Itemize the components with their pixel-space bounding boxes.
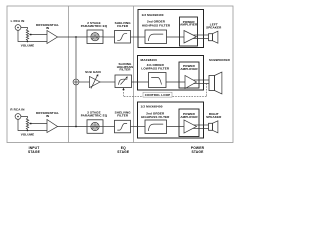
op-amp power amplifier triangle (top) [184, 31, 197, 44]
block shelving filter (bottom) [115, 120, 131, 133]
block shelving filter (top) [115, 31, 131, 44]
svg-text:FILTER: FILTER [120, 68, 132, 72]
wire summer to node R (from bottom) [75, 85, 77, 127]
block 2nd order highpass filter (top) [131, 30, 167, 44]
svg-text:VOLUME: VOLUME [21, 44, 35, 48]
svg-text:IN: IN [46, 114, 49, 118]
svg-text:AMPLIFIER: AMPLIFIER [180, 115, 198, 119]
label 2 STAGE PARAMETRIC EQ (top) [81, 21, 108, 28]
wire EQ to shelving [103, 36, 115, 38]
label RIGHT SPEAKER [206, 112, 222, 119]
svg-text:FILTER: FILTER [117, 24, 129, 28]
label POWER AMPLIFIER (middle) [180, 64, 198, 71]
svg-text:SUBWOOFER: SUBWOOFER [209, 58, 231, 62]
wire wiper to amp U1 [31, 34, 48, 36]
wire U4 to EQ (bottom) [58, 126, 88, 128]
label CONTROL LOOP [143, 92, 172, 97]
svg-text:STAGE: STAGE [117, 150, 130, 154]
wire HPF to power amp (top) [167, 36, 185, 38]
wire shelving to U2 [131, 36, 146, 38]
block sliding highpass filter [115, 75, 132, 88]
svg-text:1/2 MAX98400: 1/2 MAX98400 [141, 105, 163, 109]
junction pot R2 bottom [27, 130, 29, 132]
junction wiper R2 [30, 123, 32, 125]
potentiometer R2 [26, 118, 28, 130]
wire EQ to shelving (bottom) [103, 126, 115, 128]
svg-text:STAGE: STAGE [28, 150, 41, 154]
speaker LS1 left [209, 31, 218, 43]
wire BTL outputs to right speaker [194, 125, 209, 129]
wire shelving to U5 [131, 126, 146, 128]
amplifier sub gain [90, 74, 101, 88]
svg-text:IN: IN [46, 26, 49, 30]
block 4th order lowpass filter [132, 73, 167, 88]
IC U5 1/2 MAX98400 (bottom) [138, 102, 204, 138]
summing node [73, 79, 79, 85]
block power amplifier (bottom) [179, 109, 199, 137]
label DIFFERENTIAL IN (bottom) [36, 111, 59, 118]
label SHELVING FILTER (top) [115, 21, 132, 28]
label INPUT STAGE [28, 146, 41, 154]
op-amp power amplifier triangle (middle) [185, 76, 197, 89]
wire pot R2 bottom to amp U4 [28, 130, 48, 132]
wire BTL outputs to left speaker [194, 35, 209, 39]
connector J1 RCA jack [15, 25, 21, 31]
wire J2 to pot R2 [21, 117, 28, 119]
wire LPF to power amp (middle) [166, 81, 185, 83]
svg-text:CONTROL LOOP: CONTROL LOOP [145, 93, 171, 97]
wire J1 to pot R1 [21, 28, 28, 30]
svg-text:HIGHPASS FILTER: HIGHPASS FILTER [141, 115, 170, 119]
svg-text:R RCA IN: R RCA IN [10, 107, 24, 111]
wire wiper to amp U4 [31, 123, 48, 125]
label 4th ORDER LOWPASS FILTER [141, 63, 169, 70]
outer frame [7, 6, 233, 143]
wire node L down to summer [75, 37, 77, 79]
svg-text:SPEAKER: SPEAKER [206, 115, 222, 119]
op-amp U1 differential input amp [47, 31, 58, 44]
label EQ STAGE [117, 146, 130, 154]
block parametric EQ (top) [87, 30, 103, 44]
label 2nd ORDER HIGHPASS FILTER (top) [142, 19, 171, 27]
svg-text:PARAMETRIC EQ: PARAMETRIC EQ [81, 24, 108, 28]
svg-text:VOLUME: VOLUME [21, 133, 35, 137]
label POWER STAGE [191, 146, 205, 154]
speaker subwoofer [209, 72, 222, 94]
label POWER AMPLIFIER (bottom) [180, 112, 198, 119]
wire sub gain to sliding HPF [100, 81, 115, 83]
label SLIDING HIGHPASS FILTER [117, 62, 133, 72]
junction node L [75, 36, 77, 38]
connector J2 RCA jack [15, 114, 21, 120]
op-amp U4 differential input amp [47, 120, 58, 133]
svg-text:STAGE: STAGE [191, 150, 204, 154]
IC U3 MAX98400 (middle) [138, 56, 204, 91]
wire return loop J1 to pot bottom [18, 30, 28, 41]
junction pot bottom [27, 41, 29, 43]
block power amplifier (top) [180, 17, 198, 46]
label SHELVING FILTER (bottom) [115, 111, 132, 118]
label DIFFERENTIAL IN [36, 23, 59, 30]
speaker LS2 right [209, 121, 218, 133]
wire return loop J2 to pot bottom [18, 119, 28, 130]
wire pot bottom to amp U1 [28, 41, 48, 43]
junction node R [75, 126, 77, 128]
wiper arrow R1 [29, 34, 32, 36]
svg-text:SPEAKER: SPEAKER [206, 25, 222, 29]
wiper arrow R2 [29, 123, 32, 125]
wire U1 to EQ [58, 36, 88, 38]
wire HPF to power amp (bottom) [167, 126, 185, 128]
potentiometer R1 [26, 29, 28, 41]
svg-text:SUB GAIN: SUB GAIN [85, 70, 101, 74]
svg-text:PARAMETRIC EQ: PARAMETRIC EQ [81, 113, 108, 117]
svg-text:LOWPASS FILTER: LOWPASS FILTER [141, 66, 169, 70]
svg-text:HIGHPASS FILTER: HIGHPASS FILTER [142, 23, 171, 27]
svg-text:AMPLIFIER: AMPLIFIER [180, 67, 198, 71]
svg-text:FILTER: FILTER [117, 113, 129, 117]
label 2nd ORDER HIGHPASS FILTER (bottom) [141, 111, 170, 119]
stage divider INPUT|EQ [68, 6, 70, 143]
svg-text:MAX98400: MAX98400 [141, 58, 158, 62]
block power amplifier (middle) [179, 62, 199, 88]
svg-text:AMPLIFIER: AMPLIFIER [180, 23, 198, 27]
wire sliding HPF to U3 [132, 81, 149, 83]
wire summer to sub gain [79, 81, 90, 83]
svg-text:L RCA IN: L RCA IN [11, 19, 25, 23]
label LEFT SPEAKER [206, 22, 222, 29]
IC U2 1/2 MAX98400 (top) [138, 10, 204, 48]
control loop dashed feedback [122, 84, 206, 97]
label 2 STAGE PARAMETRIC EQ (bottom) [81, 111, 108, 118]
label POWER AMPLIFIER (top) [180, 20, 198, 27]
op-amp power amplifier triangle (bottom) [184, 120, 197, 133]
svg-text:1/2 MAX98400: 1/2 MAX98400 [142, 13, 164, 17]
block 2nd order highpass filter (bottom) [131, 120, 167, 134]
wire BTL outputs to subwoofer [194, 80, 210, 84]
junction wiper [30, 34, 32, 36]
stage divider EQ|POWER [133, 6, 135, 143]
block parametric EQ (bottom) [87, 120, 103, 134]
